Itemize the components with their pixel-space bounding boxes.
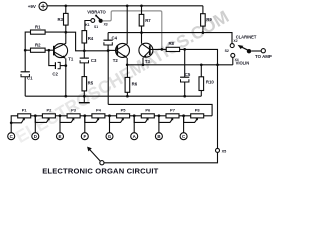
wire: chain segment xyxy=(55,115,67,117)
capacitor C3 xyxy=(80,58,97,63)
potentiometer P5 wiper xyxy=(110,116,123,123)
node: T1 collector junction xyxy=(64,31,67,34)
node: tap junction G4 xyxy=(108,114,111,117)
wire: R2 right lead to T1 base xyxy=(45,49,54,51)
wire: tap down to key xyxy=(133,116,135,133)
wire: tap down to key xyxy=(183,116,185,133)
wire: tap down to key xyxy=(59,116,61,133)
capacitor C5 xyxy=(180,72,191,82)
wire: S2 to amp terminal xyxy=(251,50,261,52)
wire: T2 emitter down xyxy=(126,58,128,65)
svg-text:R7: R7 xyxy=(145,18,151,23)
switch S1 lever xyxy=(96,16,100,20)
capacitor C4 xyxy=(104,36,118,46)
switch S1 contact K1 xyxy=(85,19,94,27)
node: R9/bus junction xyxy=(202,31,205,34)
svg-text:C5: C5 xyxy=(185,72,191,77)
svg-text:F: F xyxy=(83,134,86,139)
wire: tap down to key xyxy=(34,116,36,133)
svg-text:B: B xyxy=(157,134,160,139)
wire: T1 collector up to node xyxy=(65,32,67,43)
svg-text:VIBRATO: VIBRATO xyxy=(87,9,106,14)
wire: chain segment xyxy=(105,115,117,117)
wire: rail to R6 xyxy=(126,65,128,78)
svg-text:R5: R5 xyxy=(88,81,94,86)
node: tap junction C7 xyxy=(182,114,185,117)
wire: R7 top to rail xyxy=(141,6,143,15)
node: tap junction D1 xyxy=(34,114,37,117)
wire: top +9V rail xyxy=(47,5,203,7)
svg-text:T1: T1 xyxy=(68,56,74,61)
wire: base node down and right to C2 xyxy=(49,50,56,65)
svg-text:R6: R6 xyxy=(132,82,138,87)
potentiometer P1 xyxy=(18,108,31,118)
transistor T2 xyxy=(113,43,130,63)
node: R7/clarinet bus junction xyxy=(140,31,143,34)
node: R8/C5 junction xyxy=(183,48,186,51)
wire: rail to R3 xyxy=(65,6,67,14)
wire: R9 bottom to clarinet bus xyxy=(202,26,204,32)
node: emitter/bus junction xyxy=(64,95,67,98)
node: stylus column/rail junction xyxy=(216,63,219,66)
wire: R1 left lead and left column down to C1 xyxy=(25,32,30,72)
wire: chain end to return wire xyxy=(204,115,212,117)
node: R5/ground junction xyxy=(83,95,86,98)
svg-text:P8: P8 xyxy=(195,108,201,113)
wire: collector node link to R4/C3 node xyxy=(66,32,85,51)
svg-text:P5: P5 xyxy=(121,108,127,113)
wire: R4 bottom lead xyxy=(83,43,85,51)
svg-text:R3: R3 xyxy=(58,17,64,22)
svg-text:C3: C3 xyxy=(91,58,97,63)
node: C5/bus junction xyxy=(183,95,186,98)
transistor T3 xyxy=(139,43,153,64)
potentiometer P3 wiper xyxy=(60,116,73,123)
node: T3 emitter/rail junction xyxy=(142,63,145,66)
resistor R7 xyxy=(139,14,151,26)
svg-text:CLARINET: CLARINET xyxy=(236,34,257,39)
wire: C1 bottom to ground bus corner xyxy=(24,77,26,97)
wire: rail corner down to R9 xyxy=(202,6,204,14)
resistor R1 xyxy=(31,25,46,35)
key contact D xyxy=(32,133,39,140)
node: tap junction B6 xyxy=(158,114,161,117)
terminal X4 VIOLIN xyxy=(231,53,249,65)
resistor R4 xyxy=(82,31,94,43)
node: rail/R3 junction xyxy=(64,4,67,7)
node: T3 base/vibrato junction xyxy=(160,48,163,51)
capacitor C2 xyxy=(52,62,60,76)
svg-text:R4: R4 xyxy=(88,36,94,41)
svg-text:C2: C2 xyxy=(52,71,58,76)
wire: R3 to collector node xyxy=(65,25,67,32)
wire: vibrato feed from S1 to T3 base (grey) xyxy=(103,11,162,50)
wire: chain segment xyxy=(80,115,92,117)
key contact F xyxy=(81,133,88,140)
wire: emitter/violin rail xyxy=(127,64,233,66)
svg-text:P4: P4 xyxy=(96,108,102,113)
resistor R8 xyxy=(166,41,179,52)
wire: C5 top lead xyxy=(184,49,186,77)
node: C2/emitter junction xyxy=(64,64,67,67)
resistor R2 xyxy=(31,43,46,53)
svg-text:X2: X2 xyxy=(234,39,238,43)
switch S1 contact X3 xyxy=(94,19,108,29)
node: R10/rail junction xyxy=(200,63,203,66)
wire: R10 to bus xyxy=(200,91,202,97)
svg-text:VIOLIN: VIOLIN xyxy=(236,60,250,65)
svg-text:P2: P2 xyxy=(46,108,52,113)
capacitor C1 xyxy=(21,72,34,81)
svg-text:K1: K1 xyxy=(85,23,89,27)
potentiometers P1-P8 chain with taps and keys xyxy=(8,108,212,140)
wire: chain segment xyxy=(154,115,166,117)
wire: tap down to key xyxy=(84,116,86,133)
node: tap junction F3 xyxy=(83,114,86,117)
stylus probe xyxy=(87,147,104,165)
svg-text:S2: S2 xyxy=(225,49,229,53)
potentiometer P5 xyxy=(117,108,130,118)
potentiometer P6 xyxy=(141,108,154,118)
svg-text:S1: S1 xyxy=(94,25,98,29)
potentiometer P7 xyxy=(166,108,179,118)
wire: divider return wire xyxy=(108,104,212,115)
key contact B xyxy=(155,133,162,140)
wire: T2 collector to +9V rail xyxy=(126,6,128,44)
wire: X5 down and left to stylus xyxy=(104,152,218,162)
svg-text:E: E xyxy=(59,134,62,139)
svg-text:R9: R9 xyxy=(206,17,212,22)
wire: tap down to key xyxy=(158,116,160,133)
svg-text:C4: C4 xyxy=(112,36,118,41)
node: T1 base junction xyxy=(47,49,50,52)
key contact A xyxy=(131,133,138,140)
wire: clarinet/collector bus to X2 xyxy=(108,33,232,44)
svg-text:+9V: +9V xyxy=(28,4,36,9)
potentiometer P2 xyxy=(42,108,55,118)
resistor R10 xyxy=(199,77,214,91)
resistor R3 xyxy=(58,13,69,25)
potentiometer P6 wiper xyxy=(134,116,147,123)
wire: R1 right lead to collector node xyxy=(45,31,66,33)
wire: tap down to key xyxy=(109,116,111,133)
wire: ground bus xyxy=(25,95,201,97)
resistor R5 xyxy=(82,77,94,91)
wire: T1 emitter down to ground bus xyxy=(65,58,67,96)
svg-text:C1: C1 xyxy=(27,76,33,81)
potentiometer P3 xyxy=(67,108,80,118)
terminal X2 CLARINET xyxy=(230,34,257,47)
potentiometer P2 wiper xyxy=(35,116,48,123)
svg-text:TO AMP: TO AMP xyxy=(255,54,272,59)
svg-text:R1: R1 xyxy=(35,25,41,30)
key contact C xyxy=(180,133,187,140)
wire: C2 right lead to emitter line xyxy=(60,65,66,67)
svg-text:P6: P6 xyxy=(145,108,151,113)
ground xyxy=(79,96,90,103)
wire: R2 left lead xyxy=(25,49,30,51)
svg-text:G: G xyxy=(108,134,112,139)
svg-text:ELECTRONIC ORGAN CIRCUIT: ELECTRONIC ORGAN CIRCUIT xyxy=(42,166,158,175)
wire: rail up to X4 xyxy=(232,57,234,64)
potentiometer P8 xyxy=(191,108,204,118)
svg-text:T2: T2 xyxy=(113,58,119,63)
+9V supply terminal xyxy=(28,2,47,10)
wire: R6 to bus xyxy=(126,92,128,96)
wire: T2 base lead xyxy=(108,49,117,51)
svg-text:P1: P1 xyxy=(22,108,28,113)
wire: C4 top hook to clarinet bus xyxy=(107,33,109,41)
wire: T3 base lead to R8 xyxy=(150,48,166,50)
svg-text:R2: R2 xyxy=(35,43,41,48)
node: T2 emitter/rail junction xyxy=(126,63,129,66)
potentiometer P8 wiper xyxy=(184,116,197,123)
wire: chain segment xyxy=(31,115,43,117)
node: P1 wiper junction xyxy=(10,121,13,124)
potentiometer P1 wiper xyxy=(11,120,23,123)
resistor R9 xyxy=(201,14,213,26)
node: rail/R7 junction xyxy=(140,4,143,7)
wire: vibrato coupling node to C4 (T1 output wire) xyxy=(84,50,108,52)
wire: T3 emitter down xyxy=(142,58,144,65)
svg-text:R8: R8 xyxy=(168,41,174,46)
svg-text:R10: R10 xyxy=(206,79,214,84)
node: R1/R2/C1 junction xyxy=(24,49,27,52)
wire: C3 bottom to R5 xyxy=(83,63,85,77)
svg-text:P3: P3 xyxy=(71,108,77,113)
wire: chain left end to key C xyxy=(11,116,18,133)
wire: K1 down to R4 xyxy=(85,21,91,31)
wire: chain segment xyxy=(130,115,142,117)
potentiometer P7 wiper xyxy=(159,116,172,123)
node: rail/T2 junction xyxy=(126,4,129,7)
resistor R6 xyxy=(125,77,138,92)
wire: chain segment xyxy=(179,115,191,117)
terminal TO AMP xyxy=(255,49,272,59)
node: R4/C3 junction xyxy=(83,49,86,52)
terminal X5 xyxy=(216,148,227,153)
node: tap junction A5 xyxy=(133,114,136,117)
potentiometer P4 xyxy=(92,108,105,118)
wire: rail to R10 xyxy=(200,65,202,77)
node: C4/T2 base junction xyxy=(107,49,110,52)
wire: divider return column down from base node xyxy=(107,51,109,105)
transistor T1 xyxy=(54,43,74,61)
key contact E xyxy=(57,133,64,140)
node: tap junction E2 xyxy=(59,114,62,117)
wire: node to C3 top xyxy=(83,51,85,58)
wire: R8 output to violin drop xyxy=(180,49,218,64)
wire: R7 bottom to T3 collector xyxy=(141,26,143,43)
svg-text:X3: X3 xyxy=(104,22,108,26)
svg-text:X5: X5 xyxy=(222,149,227,153)
svg-text:P7: P7 xyxy=(170,108,176,113)
potentiometer P4 wiper xyxy=(85,116,98,123)
key contact G xyxy=(106,133,113,140)
svg-text:T3: T3 xyxy=(145,59,151,64)
wire: C4 bottom to base node xyxy=(107,45,109,51)
wire: R5 bottom to bus xyxy=(83,91,85,96)
switch S2 lever xyxy=(225,45,252,54)
node: R6/bus junction xyxy=(126,95,129,98)
svg-text:D: D xyxy=(34,134,37,139)
wire: stylus column down to X5 xyxy=(217,65,219,149)
key contact C xyxy=(8,133,15,140)
wire: C5 bottom to bus xyxy=(184,82,186,96)
